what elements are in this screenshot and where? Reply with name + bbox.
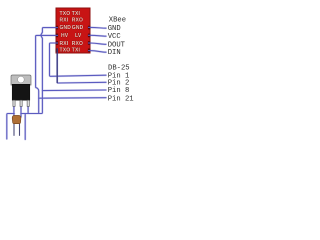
tab xyxy=(11,75,31,85)
wire board RXI-left to DB-25 Pin 1 xyxy=(50,43,107,76)
svg-text:GND: GND xyxy=(60,25,72,31)
wire board HV-left down xyxy=(36,35,56,113)
body xyxy=(12,115,21,123)
svg-text:RXI: RXI xyxy=(60,41,69,47)
svg-text:Pin 8: Pin 8 xyxy=(108,87,130,95)
wire tips over pads xyxy=(56,27,91,50)
wire board LV to XBee VCC xyxy=(90,34,106,37)
wire board GND to XBee GND xyxy=(90,26,106,29)
svg-text:VCC: VCC xyxy=(108,33,122,41)
wire regulator leg3 to rail xyxy=(27,104,29,114)
svg-text:XBee: XBee xyxy=(109,17,126,25)
svg-text:DOUT: DOUT xyxy=(108,41,126,49)
capacitor C1 (ceramic) xyxy=(12,115,21,135)
wire board TXI to XBee DIN xyxy=(90,51,106,53)
wire regulator leg2 down xyxy=(20,104,22,117)
svg-text:DIN: DIN xyxy=(108,49,121,57)
svg-text:HV: HV xyxy=(61,33,69,39)
wire glow underlay xyxy=(7,27,106,139)
svg-text:LV: LV xyxy=(75,33,82,39)
right-side labels xyxy=(108,17,134,104)
wire branch to DB-25 Pin 8 xyxy=(42,89,106,92)
svg-text:RXO: RXO xyxy=(72,17,83,23)
wire tip over board (TXO-left pin) xyxy=(56,49,58,83)
legs xyxy=(13,100,15,106)
svg-text:TXO: TXO xyxy=(60,11,71,17)
svg-text:RXI: RXI xyxy=(60,17,69,23)
svg-text:RXO: RXO xyxy=(72,41,83,47)
leads xyxy=(13,122,15,136)
svg-text:TXO: TXO xyxy=(60,48,71,54)
body xyxy=(12,84,30,100)
level converter board xyxy=(56,8,91,54)
wire branch to DB-25 Pin 21 xyxy=(39,97,106,100)
wire board RXO to XBee DOUT xyxy=(90,43,106,44)
voltage regulator U1 (TO-220) xyxy=(11,75,31,106)
wire regulator leg1 down xyxy=(13,104,15,117)
svg-text:Pin 21: Pin 21 xyxy=(108,96,134,104)
pin pads left xyxy=(56,26,59,30)
wire board TXO-left to DB-25 Pin 2 xyxy=(57,50,106,83)
svg-text:TXI: TXI xyxy=(72,48,81,54)
pin pads right xyxy=(88,26,91,30)
wire board GND-left down to bottom rail xyxy=(21,28,56,114)
svg-text:GND: GND xyxy=(108,25,121,33)
mounting hole xyxy=(18,76,25,83)
svg-text:TXI: TXI xyxy=(72,11,81,17)
wire cores xyxy=(7,27,106,139)
svg-text:Pin 2: Pin 2 xyxy=(108,79,130,87)
wire right open end xyxy=(24,114,26,140)
svg-text:GND: GND xyxy=(72,25,84,31)
wire bottom-left rail to open end xyxy=(7,114,15,140)
